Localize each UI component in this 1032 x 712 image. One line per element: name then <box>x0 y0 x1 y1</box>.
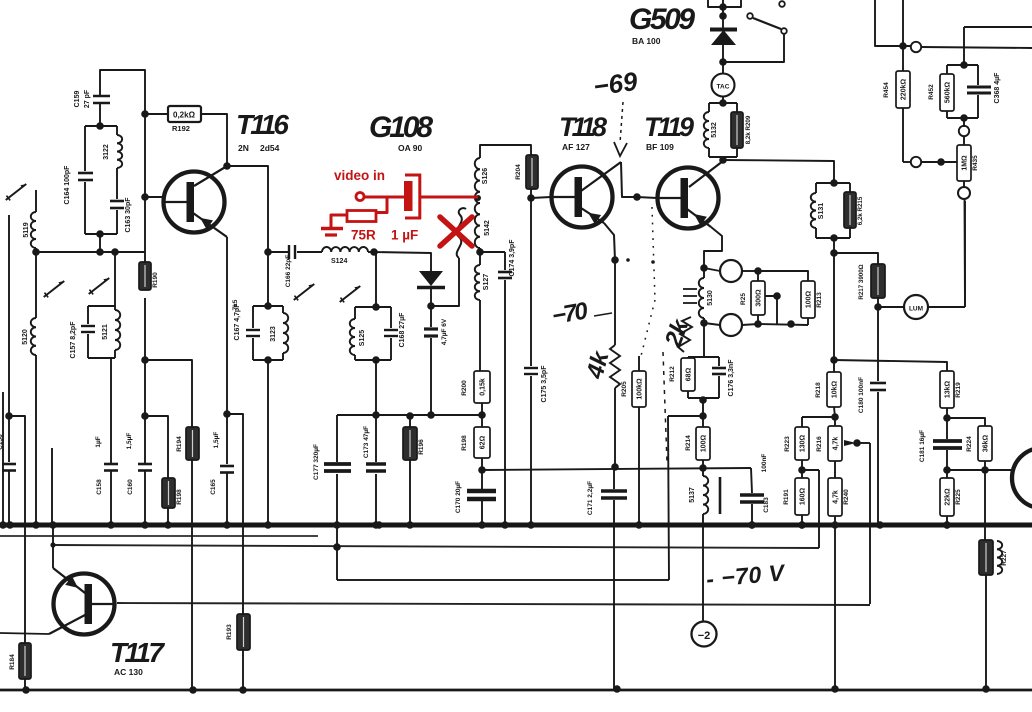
svg-text:36kΩ: 36kΩ <box>982 434 989 452</box>
svg-text:R205: R205 <box>621 381 628 397</box>
wire to G108 diode <box>374 252 431 271</box>
svg-text:T119: T119 <box>644 112 694 142</box>
wire top feedback loop <box>100 70 145 112</box>
svg-text:2d54: 2d54 <box>260 143 280 153</box>
resistor R225 22k <box>946 470 948 478</box>
trimmer arrow pair tank2 <box>44 281 64 297</box>
node wiper <box>853 439 861 447</box>
svg-text:R194: R194 <box>176 436 183 452</box>
connector circle y162 <box>911 157 921 167</box>
trimmer circle top <box>720 260 742 282</box>
svg-text:R200: R200 <box>461 380 468 396</box>
TAC circle <box>722 62 724 74</box>
resistor R223 130R <box>795 427 809 460</box>
resistor R198 <box>162 478 175 508</box>
svg-text:G108: G108 <box>369 111 433 144</box>
svg-text:C159: C159 <box>74 91 81 108</box>
node R223 bottom <box>798 466 806 474</box>
resistor R212 68R <box>681 358 695 391</box>
capacitor C157 8,2pF <box>81 325 95 327</box>
node tank1 y252 <box>96 248 104 256</box>
node tank3 bottom <box>264 356 272 364</box>
node R224 bottom <box>981 466 989 474</box>
node R25 top <box>754 267 762 275</box>
svg-text:5132: 5132 <box>711 122 718 138</box>
svg-text:C170 20µF: C170 20µF <box>455 481 462 513</box>
resistor R25 300R <box>757 271 759 281</box>
node tank4 bottom <box>372 356 380 364</box>
wire rail y=415 <box>337 414 482 416</box>
svg-text:5119: 5119 <box>23 222 30 237</box>
resistor R194 <box>186 427 199 460</box>
wire y=252 to C174 <box>480 251 505 253</box>
svg-text:C174 3,9pF: C174 3,9pF <box>509 239 516 277</box>
capacitor C169 4,7µF <box>430 306 432 327</box>
resistor R209 8,2k <box>731 112 743 148</box>
red X cross <box>440 217 472 246</box>
capacitor C368 4µF <box>967 86 991 89</box>
capacitor C175 3,5pF <box>524 367 538 369</box>
wire C177 return rail y=580 <box>337 579 669 581</box>
svg-text:C181 16µF: C181 16µF <box>919 430 926 462</box>
inductor 5121 <box>115 310 120 350</box>
T116 emitter arrow <box>200 218 213 230</box>
svg-text:C180 100nF: C180 100nF <box>858 377 865 413</box>
inductor 5119 <box>31 212 36 248</box>
inductor 3122 <box>117 135 122 168</box>
node R25 bottom <box>754 320 762 328</box>
capacitor C164 100pF <box>78 172 93 175</box>
node x145 y416 <box>141 412 149 420</box>
node parallel top <box>960 61 968 69</box>
wire rail y=469 <box>482 468 751 470</box>
node rail y546 start <box>50 542 55 547</box>
diode G509 BA100 <box>722 16 724 29</box>
node tank4 to rail <box>372 411 380 419</box>
node C177 rail crossing <box>333 543 341 551</box>
wire to top right <box>963 27 965 65</box>
wire dotted collector line <box>652 207 655 300</box>
svg-text:C177 320µF: C177 320µF <box>313 444 320 480</box>
resistor R198b <box>474 427 490 458</box>
node T119 base <box>633 193 641 201</box>
svg-text:R217 3900Ω: R217 3900Ω <box>858 264 865 299</box>
tank circuit C167/3123 <box>267 252 269 306</box>
arrow -69 pointer <box>620 102 623 143</box>
capacitor C173 47µF <box>375 415 377 462</box>
resistor R214 100R <box>702 416 704 427</box>
svg-text:4,7k: 4,7k <box>832 437 839 451</box>
node x227 y414 <box>223 410 231 418</box>
wire to R198 <box>145 416 168 478</box>
transistor T117 <box>54 574 115 635</box>
svg-text:8,2k R209: 8,2k R209 <box>745 115 752 144</box>
wire x9/x25 branch <box>9 416 25 643</box>
svg-text:R191: R191 <box>783 489 790 505</box>
wire T117 collector <box>49 615 85 634</box>
node diode top <box>719 3 727 11</box>
T118 emitter arrow <box>588 213 601 224</box>
wire R218 junction to R223 <box>802 416 835 418</box>
svg-text:C368 4µF: C368 4µF <box>994 72 1001 104</box>
svg-text:2N: 2N <box>238 143 249 153</box>
svg-text:BA 100: BA 100 <box>632 36 661 46</box>
svg-text:5120: 5120 <box>22 329 29 345</box>
svg-text:−2: −2 <box>698 630 711 642</box>
svg-text:C175 3,5pF: C175 3,5pF <box>541 365 548 403</box>
node S124 right <box>370 248 378 256</box>
wire x835 below bus <box>834 525 836 689</box>
capacitor C158 1µF <box>104 463 118 466</box>
inductor 5120 <box>35 252 37 318</box>
switch blade <box>753 18 781 29</box>
svg-text:130Ω: 130Ω <box>799 434 806 452</box>
svg-text:−69: −69 <box>591 66 639 102</box>
wire tank2 bottom to bus <box>110 358 112 464</box>
svg-text:4,7k: 4,7k <box>832 490 839 504</box>
svg-text:S131: S131 <box>818 203 825 219</box>
node bus x615 <box>611 522 616 527</box>
inductor 3123 <box>283 313 288 353</box>
tank 5132/R209 frame <box>709 102 737 104</box>
svg-text:C173 47µF: C173 47µF <box>363 426 370 458</box>
svg-text:75R: 75R <box>351 228 376 243</box>
resistor R224 36k <box>978 426 992 461</box>
wire R193 bottom <box>242 650 244 690</box>
svg-text:560kΩ: 560kΩ <box>944 82 951 104</box>
node R184 bottom <box>22 686 30 694</box>
red ground symbol <box>321 227 343 231</box>
wire R192 to collector <box>201 114 227 166</box>
svg-text:S124: S124 <box>331 258 347 265</box>
svg-text:C168 27µF: C168 27µF <box>399 312 406 347</box>
wire to x819 <box>802 469 819 471</box>
svg-text:S127: S127 <box>483 274 490 290</box>
svg-text:100nF: 100nF <box>761 454 768 473</box>
svg-text:R216: R216 <box>816 436 823 452</box>
svg-text:S126: S126 <box>482 168 489 184</box>
svg-text:T116: T116 <box>236 109 289 140</box>
wire to R217 <box>834 253 878 264</box>
wire LUM right <box>928 306 965 308</box>
svg-text:R212: R212 <box>669 366 676 382</box>
wire T119 collector <box>689 161 723 187</box>
resistor R227 with coil <box>979 540 993 575</box>
node S131 top <box>830 179 838 187</box>
red wire input <box>365 196 404 199</box>
svg-text:C165: C165 <box>210 479 217 495</box>
node parallel bottom <box>960 114 968 122</box>
wire T118 collector to T119 base <box>581 162 621 191</box>
wire hooked jumper to coil tap <box>431 258 459 306</box>
node y416 junction <box>699 412 707 420</box>
svg-text:1MΩ: 1MΩ <box>961 155 968 171</box>
svg-text:C183: C183 <box>763 497 770 513</box>
wire y470 to output transistor <box>947 469 1013 471</box>
svg-text:R196: R196 <box>418 439 425 455</box>
wire T117 collector rail y=546 <box>53 545 819 548</box>
svg-text:LUM: LUM <box>909 306 923 313</box>
node T118 emitter junction <box>611 256 619 264</box>
resistor R240 4,7k <box>834 461 836 478</box>
svg-text:R213: R213 <box>816 292 823 308</box>
capacitor C166 22pF <box>268 251 288 253</box>
wire T119 emitter <box>704 227 722 268</box>
tank circuit C164/3122/C163 top node <box>96 122 104 130</box>
node x903 y46 <box>899 42 907 50</box>
svg-text:C176 3,3nF: C176 3,3nF <box>728 359 735 397</box>
svg-text:5130: 5130 <box>707 290 714 306</box>
node x145 y360 <box>141 356 149 364</box>
tank S131/R215 frame <box>816 182 850 184</box>
capacitor C180 100nF <box>877 307 879 381</box>
svg-text:G509: G509 <box>629 3 695 36</box>
resistor R192 0.2k <box>168 106 201 122</box>
wire wiper to x870 <box>857 442 870 444</box>
connector circle y47 <box>911 42 921 52</box>
capacitor C174 3,9pF <box>504 252 506 270</box>
resistor 2k handwritten zigzag <box>678 317 692 352</box>
wire y416 to x668 <box>668 415 703 417</box>
svg-text:R198: R198 <box>461 435 468 451</box>
tank circuit S125/C168 feed <box>375 252 377 307</box>
svg-text:R214: R214 <box>685 435 692 451</box>
node tank5 bottom <box>699 396 707 404</box>
node R240 bus <box>831 521 839 529</box>
wire trimmer bottom left <box>704 323 720 325</box>
red capacitor 1µF plate <box>404 181 413 211</box>
node red wire to coil <box>475 195 481 201</box>
wire T117 emitter up <box>53 568 85 593</box>
svg-text:R454: R454 <box>883 82 890 98</box>
node 5130 bottom <box>700 319 708 327</box>
svg-text:6,2k R215: 6,2k R215 <box>857 196 864 225</box>
node R192 left junction <box>141 110 149 118</box>
svg-text:T118: T118 <box>559 112 607 142</box>
resistor R216 4,7k potentiometer <box>834 417 836 426</box>
resistor R215 6,2k <box>844 192 856 228</box>
svg-text:C163 30pF: C163 30pF <box>125 197 132 233</box>
node x268 y252 <box>264 248 272 256</box>
svg-text:0,2kΩ: 0,2kΩ <box>173 111 196 120</box>
component box top partial <box>708 0 741 7</box>
capacitor C181 16µF <box>946 418 948 439</box>
svg-text:100Ω: 100Ω <box>805 290 812 308</box>
wire tank1 frame <box>85 125 117 127</box>
svg-text:100Ω: 100Ω <box>700 434 707 452</box>
T117 emitter arrow <box>65 576 78 588</box>
red wire resistor branch <box>376 197 387 213</box>
svg-text:R452: R452 <box>928 84 935 100</box>
wire -70V bus (thick horizontal rail) <box>0 523 1032 528</box>
svg-text:C158: C158 <box>96 479 103 495</box>
supply circle -2 <box>692 622 717 647</box>
bus junction dots <box>6 521 14 529</box>
svg-text:3123: 3123 <box>270 326 277 342</box>
wire R25 tap <box>765 296 777 325</box>
svg-text:13kΩ: 13kΩ <box>944 380 951 398</box>
node tank2 feed <box>111 248 119 256</box>
wire to LUM <box>878 306 904 308</box>
resistor R204 100R <box>526 155 538 189</box>
inductor 5137 <box>702 468 704 476</box>
capacitor C159 27pF <box>93 95 110 98</box>
svg-text:1,5µF: 1,5µF <box>126 433 133 450</box>
wire R454 bottom to 1M <box>903 161 911 163</box>
svg-text:0,15k: 0,15k <box>479 378 486 396</box>
capacitor C160 1,5µF <box>144 197 146 262</box>
node T119 collector <box>719 156 727 164</box>
node mid cluster <box>787 320 795 328</box>
capacitor C177 320µF <box>336 415 338 462</box>
node x9 top <box>8 215 10 416</box>
svg-text:1 µF: 1 µF <box>391 228 418 243</box>
svg-text:R225: R225 <box>955 489 962 505</box>
red input connector circle <box>356 193 364 201</box>
node G108 bottom <box>427 302 435 310</box>
node x615 y467 <box>611 463 619 471</box>
diode G108 OA90 <box>419 271 443 286</box>
node y162 <box>937 158 945 166</box>
trimmer circle bottom <box>720 314 742 336</box>
svg-text:R223: R223 <box>784 436 791 452</box>
resistor R213 100R <box>801 281 815 318</box>
wire bottom supply rail <box>0 689 1032 692</box>
inductor S125 <box>350 319 355 355</box>
svg-text:68Ω: 68Ω <box>685 367 692 381</box>
capacitor C176 3,3nF <box>712 367 726 370</box>
wire horizontal rail y=536 <box>0 535 318 537</box>
inductor 5130 <box>699 278 704 318</box>
wire x903 from top <box>902 0 904 46</box>
transistor output partial <box>1012 448 1032 508</box>
wire T117 emitter stub y=633 <box>0 633 49 634</box>
svg-text:AF 127: AF 127 <box>562 142 590 152</box>
node T116 collector <box>223 162 231 170</box>
resistor R452 560k <box>940 74 954 111</box>
node C169 bottom <box>427 411 435 419</box>
resistor R191 160R <box>801 470 803 478</box>
wire T116 collector diagonal <box>194 166 227 186</box>
resistor R219 13k <box>940 371 954 408</box>
svg-text:TAC: TAC <box>717 84 730 91</box>
svg-text:3122: 3122 <box>103 144 110 160</box>
wire 1M top <box>963 136 965 145</box>
tank S125/C168 frame <box>355 306 391 308</box>
capacitor C170 20µF <box>481 470 483 489</box>
capacitor C165 1,5µF <box>226 414 228 464</box>
svg-text:R204: R204 <box>515 164 522 180</box>
capacitor C156 <box>8 416 10 462</box>
node C181 bottom <box>943 466 951 474</box>
node S131 bottom <box>830 234 838 242</box>
svg-text:R435: R435 <box>972 155 979 171</box>
node diode bottom <box>719 58 727 66</box>
svg-text:C156: C156 <box>0 434 4 450</box>
wire R192 feed <box>145 113 168 115</box>
node C171 bottom rail <box>613 685 621 693</box>
switch open contact <box>779 1 785 7</box>
node x482 y415 <box>478 411 486 419</box>
wire x875 from top <box>875 0 911 46</box>
trimmer arrow top-left <box>6 184 26 200</box>
node TAC bottom <box>719 99 727 107</box>
wire to R193 line <box>227 414 243 614</box>
svg-text:C166 22pF: C166 22pF <box>285 255 292 288</box>
switch contact <box>781 28 787 34</box>
svg-text:R25: R25 <box>740 293 747 305</box>
svg-text:R218: R218 <box>815 382 822 398</box>
svg-text:62Ω: 62Ω <box>479 435 486 449</box>
wire collector to C166 branch <box>227 166 268 252</box>
svg-text:video in: video in <box>334 168 385 183</box>
inductor S142 lower half <box>475 203 480 248</box>
node x193 bottom <box>189 686 197 694</box>
capacitor C168 27µF <box>384 329 398 331</box>
wire x668 vertical <box>668 416 669 580</box>
transistor T116 <box>164 172 225 233</box>
svg-text:10kΩ: 10kΩ <box>831 380 838 398</box>
inductor S124 <box>322 247 368 252</box>
node T117 emitter bus <box>49 521 57 529</box>
inductor 5132 <box>704 112 709 148</box>
T119 emitter arrow <box>694 214 707 226</box>
node R218 bottom <box>831 413 839 421</box>
resistor R217 3900R <box>871 264 885 298</box>
svg-text:R192: R192 <box>172 124 190 133</box>
svg-text:5142: 5142 <box>484 220 491 236</box>
node C183 bottom <box>748 521 756 529</box>
parallel R452/C368 frame <box>947 64 978 66</box>
svg-text:C157 8,2pF: C157 8,2pF <box>70 321 77 359</box>
resistor R200 <box>474 371 490 403</box>
node y253 junction <box>830 249 838 257</box>
red capacitor bracket plate <box>405 174 421 177</box>
svg-text:S125: S125 <box>359 330 366 346</box>
red wire capacitor to coil <box>421 196 478 199</box>
connector circle y193 <box>963 181 965 189</box>
wire to R213 <box>758 271 808 281</box>
wire T117 base rail y=604 <box>117 603 870 605</box>
node tank1 bottom <box>96 230 104 238</box>
svg-text:4,7µF 6V: 4,7µF 6V <box>441 318 448 345</box>
wire y47 right <box>921 47 1032 48</box>
resistor R190 <box>139 262 151 290</box>
wire S126 top loop <box>480 145 531 158</box>
wire R194 bottom long <box>191 460 193 690</box>
wire T116 emitter diagonal <box>193 213 227 237</box>
node y360 junction <box>830 356 838 364</box>
svg-text:R184: R184 <box>9 654 16 670</box>
svg-text:R198: R198 <box>176 489 183 505</box>
wire R224 junction down to R227 <box>984 470 986 540</box>
resistor R454 220k <box>902 46 904 71</box>
node R219 bottom <box>943 414 951 422</box>
transistor T119 <box>658 168 719 229</box>
node x482 y470 <box>481 458 483 470</box>
red resistor 75R <box>347 211 376 222</box>
iron core bar 5137 <box>719 477 722 514</box>
svg-text:BF 109: BF 109 <box>646 142 674 152</box>
wire base line down / C175 <box>530 198 532 366</box>
svg-text:22kΩ: 22kΩ <box>944 488 951 506</box>
wire switch return <box>726 34 784 62</box>
svg-text:5137: 5137 <box>689 487 696 503</box>
svg-text:R224: R224 <box>966 436 973 452</box>
wire to R224 <box>947 418 985 426</box>
svg-text:AC 130: AC 130 <box>114 667 143 677</box>
svg-text:1µF: 1µF <box>95 436 102 447</box>
